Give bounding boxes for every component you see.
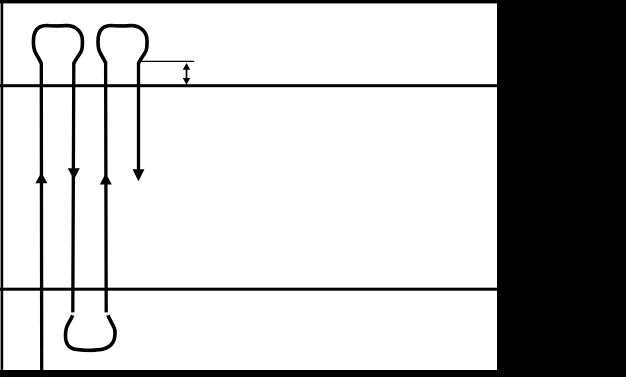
right black margin [497, 0, 626, 377]
thin reference line at loop-bottom level [142, 60, 195, 62]
white drawing panel [0, 0, 497, 377]
pipe P4 (down leg of loop 2, ends at arrow) [137, 62, 140, 171]
dimension arrowhead up [183, 63, 190, 70]
top U-bend loop 1 [33, 26, 82, 64]
lower boundary line [0, 288, 497, 291]
top U-bend loop 2 [98, 26, 147, 64]
left border line of panel [1, 0, 4, 377]
bottom U-bend loop [66, 315, 116, 350]
flow arrowhead up on P1 [35, 173, 47, 184]
flow arrowhead down on P2 [68, 168, 80, 180]
ground surface line [0, 84, 497, 87]
dimension arrow shaft [186, 69, 188, 80]
pipe P1 (leftmost riser, full depth) [40, 62, 44, 372]
pipe P2 (down leg of loop 1) [73, 62, 74, 312]
flow arrowhead up on P3 [100, 173, 112, 184]
dimension arrowhead down [183, 78, 190, 85]
pipe P3 (up leg to loop 2) [104, 62, 108, 312]
top border line of panel [0, 0, 497, 3]
flow arrowhead down on P4 [133, 169, 145, 181]
bottom black margin [0, 370, 626, 377]
